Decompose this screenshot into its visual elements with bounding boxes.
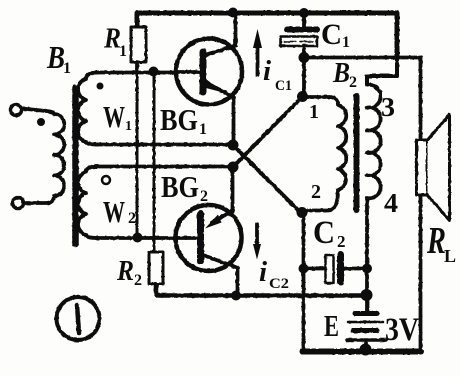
- svg-text:i: i: [259, 256, 267, 288]
- svg-text:R: R: [116, 256, 134, 287]
- svg-text:L: L: [444, 246, 456, 266]
- svg-text:2: 2: [337, 232, 346, 251]
- svg-text:E: E: [324, 308, 339, 343]
- svg-text:1: 1: [119, 43, 127, 60]
- svg-text:i: i: [263, 55, 271, 87]
- svg-text:2: 2: [134, 272, 142, 289]
- svg-text:C1: C1: [275, 78, 292, 94]
- svg-text:C: C: [313, 215, 335, 251]
- svg-text:W: W: [103, 194, 125, 229]
- svg-text:2: 2: [200, 188, 208, 205]
- svg-text:4: 4: [384, 188, 398, 218]
- svg-text:2: 2: [349, 74, 357, 91]
- svg-text:1: 1: [199, 121, 207, 138]
- svg-text:1: 1: [309, 101, 319, 123]
- svg-text:C: C: [321, 18, 342, 51]
- svg-text:1: 1: [342, 34, 350, 51]
- svg-text:W: W: [103, 99, 125, 134]
- svg-text:3V: 3V: [385, 312, 419, 348]
- svg-text:1: 1: [125, 119, 132, 134]
- svg-text:B: B: [332, 57, 350, 89]
- svg-text:BG: BG: [161, 169, 199, 204]
- svg-text:3: 3: [381, 92, 395, 122]
- svg-text:1: 1: [63, 60, 71, 77]
- svg-text:2: 2: [128, 210, 136, 227]
- svg-text:2: 2: [311, 181, 321, 203]
- svg-text:BG: BG: [160, 102, 198, 137]
- svg-text:C2: C2: [269, 276, 289, 292]
